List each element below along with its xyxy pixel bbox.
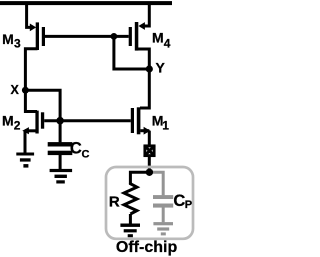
VDD rail xyxy=(0,1,172,5)
wire R to ground xyxy=(129,214,132,224)
wire M3 source drop xyxy=(27,4,32,27)
svg-text:P: P xyxy=(185,199,192,211)
transistor M3 source arrow xyxy=(30,24,36,32)
wire gate line M3-M4 xyxy=(45,35,129,38)
transistor M2 gate bar xyxy=(41,112,44,128)
transistor M1 source arrow xyxy=(140,129,149,132)
svg-text:Y: Y xyxy=(156,59,166,75)
wire M2 source to ground xyxy=(24,131,27,153)
node Y xyxy=(146,65,153,72)
pad symbol xyxy=(145,146,154,156)
wire Y to M1 drain xyxy=(140,69,149,108)
transistor M1 channel xyxy=(137,107,141,134)
transistor M3 gate bar xyxy=(42,27,45,46)
svg-text:4: 4 xyxy=(164,36,171,50)
wire M3 drain to M2 drain (trunk) xyxy=(25,49,37,112)
svg-text:M: M xyxy=(2,31,14,47)
wire to Cp (gray) xyxy=(149,172,163,195)
wire M4 source drop xyxy=(144,4,149,26)
svg-text:C: C xyxy=(82,149,90,161)
wire Cp to ground (gray) xyxy=(162,208,165,223)
node X xyxy=(22,87,29,94)
transistor M2 source arrow xyxy=(25,129,36,132)
ground M2 xyxy=(16,153,34,156)
svg-text:3: 3 xyxy=(14,37,21,51)
transistor M3 channel xyxy=(36,22,39,50)
ground R xyxy=(120,224,140,227)
transistor M4 gate bar xyxy=(129,27,132,46)
svg-text:M: M xyxy=(2,113,14,129)
node off-chip junction xyxy=(146,169,153,176)
wire Cc to ground xyxy=(59,155,62,169)
svg-text:R: R xyxy=(109,193,120,210)
transistor M2 channel xyxy=(35,111,38,134)
svg-text:X: X xyxy=(11,83,20,97)
ground Cc xyxy=(50,169,73,172)
capacitor Cc xyxy=(48,142,73,146)
wire junction down to Y xyxy=(114,36,149,69)
off-chip box xyxy=(106,167,193,239)
wire junction down to Cc xyxy=(59,121,62,143)
transistor M4 channel xyxy=(135,22,139,51)
svg-text:C: C xyxy=(70,139,82,157)
ground Cp (gray) xyxy=(153,222,173,225)
wire gate line M2-junction-M1 xyxy=(44,119,131,122)
wire X to gate junction xyxy=(25,90,60,120)
transistor M4 source arrow xyxy=(138,22,145,30)
svg-text:1: 1 xyxy=(162,118,169,132)
wire off-chip node to R xyxy=(130,172,149,183)
resistor R xyxy=(124,183,137,214)
svg-text:2: 2 xyxy=(14,119,21,133)
wire pad to off-chip node xyxy=(148,157,151,173)
svg-text:C: C xyxy=(173,192,185,210)
transistor M1 gate bar xyxy=(131,108,134,133)
capacitor Cp (gray) xyxy=(153,195,173,199)
wire M1 source down to pad xyxy=(148,131,151,146)
svg-text:M: M xyxy=(152,30,164,46)
node gate-line junction xyxy=(111,33,118,40)
svg-text:Off-chip: Off-chip xyxy=(116,239,178,256)
node junction at Cc xyxy=(56,117,64,125)
wire M4 drain to Y xyxy=(137,49,150,69)
